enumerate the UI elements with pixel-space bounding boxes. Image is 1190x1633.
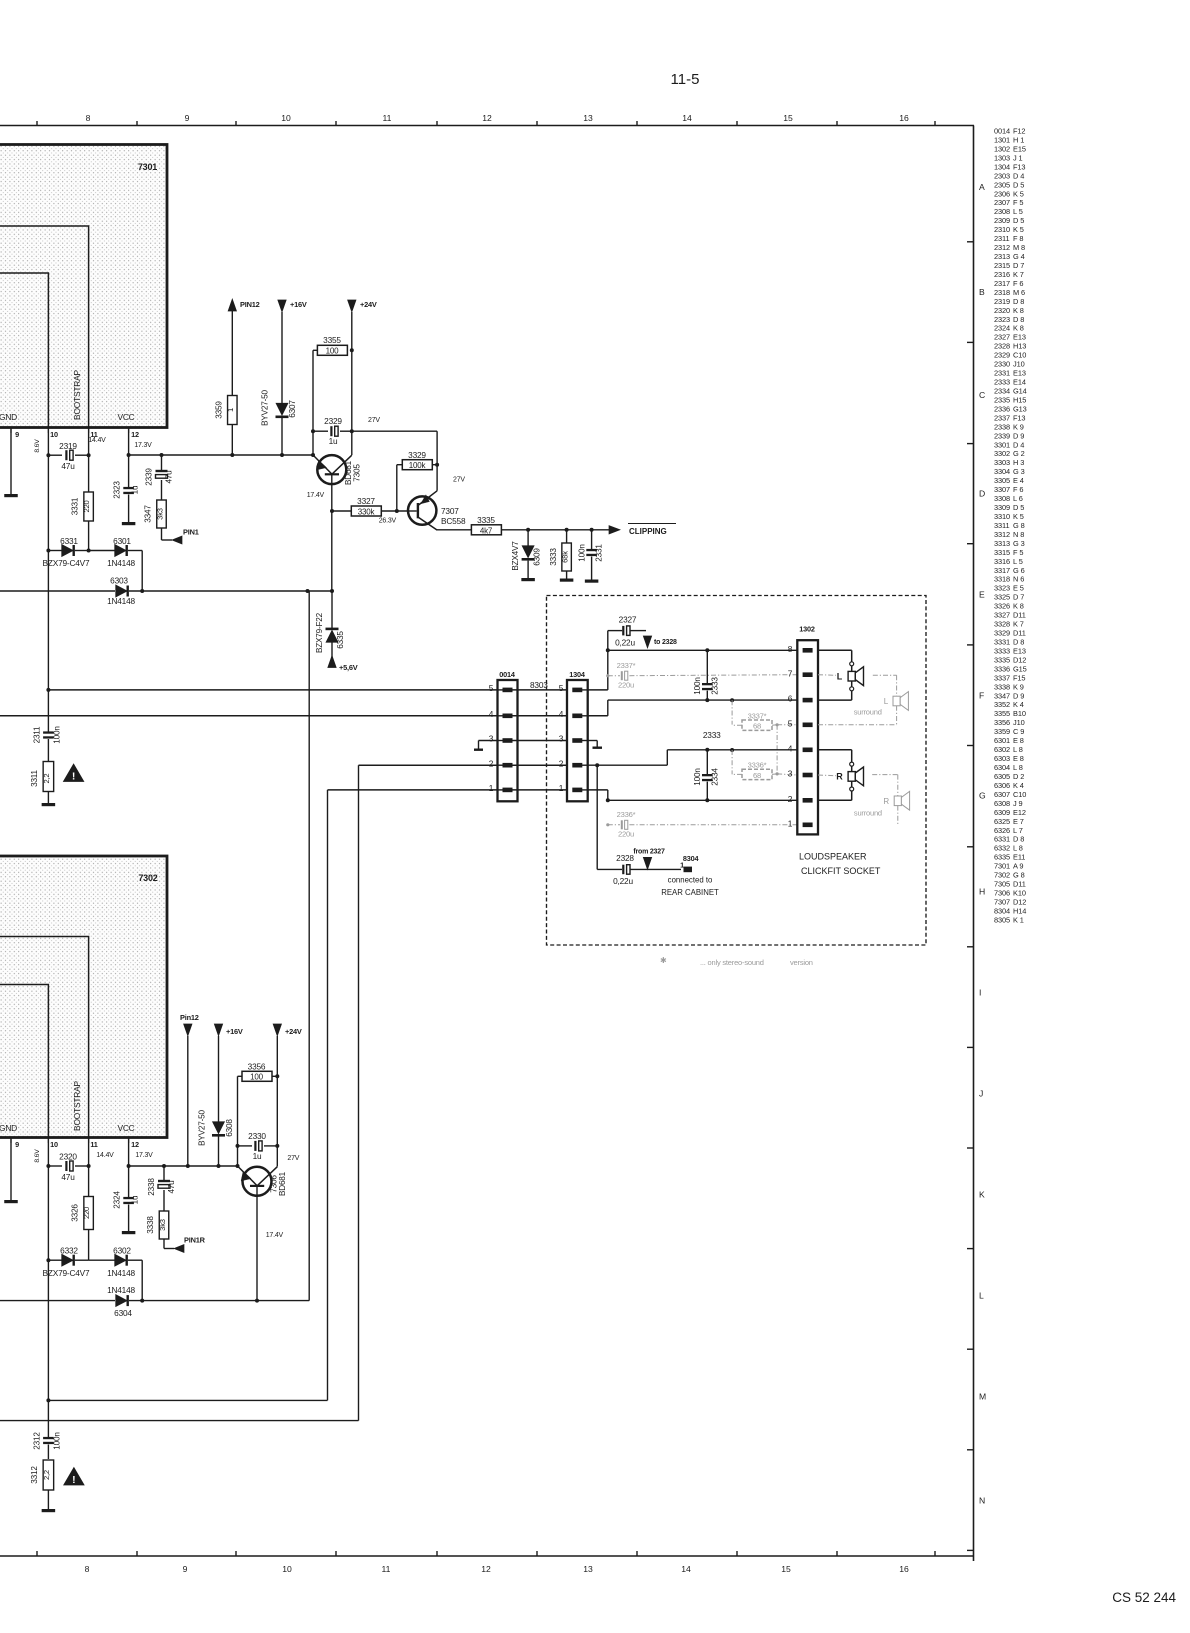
- svg-text:surround: surround: [854, 708, 882, 717]
- svg-text:6306: 6306: [994, 781, 1010, 790]
- capacitor 2311 100n: [47, 691, 49, 732]
- svg-text:D 2: D 2: [1013, 772, 1024, 781]
- svg-text:L 5: L 5: [1013, 557, 1023, 566]
- svg-text:VCC: VCC: [117, 1123, 134, 1133]
- svg-text:A 9: A 9: [1013, 862, 1023, 871]
- IC U7301 amplifier block outline: [0, 145, 167, 428]
- svg-text:8304: 8304: [994, 906, 1010, 915]
- svg-text:17.4V: 17.4V: [307, 492, 325, 499]
- svg-text:6335: 6335: [336, 631, 345, 649]
- svg-text:connected to: connected to: [668, 876, 713, 885]
- wire PIN12 vertical: [231, 311, 233, 396]
- svg-text:4: 4: [788, 743, 793, 753]
- svg-text:2336*: 2336*: [617, 810, 636, 819]
- svg-text:6307: 6307: [288, 400, 297, 418]
- svg-text:6303: 6303: [994, 754, 1010, 763]
- svg-text:100n: 100n: [577, 544, 586, 562]
- connector 0014 body: [498, 680, 518, 801]
- svg-text:E: E: [979, 590, 985, 600]
- capacitor 2323 1u: [123, 487, 134, 489]
- svg-text:17.3V: 17.3V: [134, 442, 152, 449]
- svg-text:R: R: [836, 772, 843, 782]
- svg-text:2: 2: [489, 758, 494, 768]
- svg-text:3326: 3326: [994, 602, 1010, 611]
- svg-text:version: version: [790, 958, 813, 967]
- svg-text:1N4148: 1N4148: [107, 1285, 135, 1295]
- svg-text:3329: 3329: [994, 629, 1010, 638]
- svg-text:C 9: C 9: [1013, 727, 1024, 736]
- svg-text:F 6: F 6: [1013, 485, 1023, 494]
- svg-text:15: 15: [781, 1564, 791, 1574]
- wire 3337 to 3336 grey vertical: [776, 725, 778, 774]
- svg-text:D12: D12: [1013, 898, 1026, 907]
- svg-text:3331: 3331: [71, 497, 80, 515]
- svg-text:1304: 1304: [569, 670, 586, 679]
- svg-text:J10: J10: [1013, 360, 1025, 369]
- wire pin12 vertical upper: [128, 428, 130, 488]
- svg-text:6301: 6301: [113, 536, 131, 546]
- svg-text:5: 5: [489, 683, 494, 693]
- svg-text:L: L: [837, 672, 843, 682]
- svg-text:27V: 27V: [368, 417, 380, 424]
- svg-text:12: 12: [131, 1140, 139, 1149]
- svg-text:6301: 6301: [994, 736, 1010, 745]
- svg-text:BZX4V7: BZX4V7: [511, 541, 520, 571]
- ground 2331: [585, 580, 599, 583]
- resistor 3355 100: [313, 349, 317, 351]
- svg-text:47u: 47u: [61, 461, 75, 471]
- svg-text:2338: 2338: [147, 1178, 156, 1196]
- node +24V arrow: [348, 300, 356, 312]
- ground 6309: [521, 578, 535, 581]
- svg-text:3k3: 3k3: [158, 1219, 167, 1231]
- svg-text:D11: D11: [1013, 880, 1026, 889]
- svg-text:6303: 6303: [110, 576, 128, 586]
- svg-text:surround: surround: [854, 809, 882, 818]
- svg-text:F 6: F 6: [1013, 279, 1023, 288]
- svg-text:2331: 2331: [994, 369, 1010, 378]
- svg-text:1303: 1303: [994, 153, 1010, 162]
- svg-text:6304: 6304: [114, 1308, 132, 1318]
- capacitor 2312 100n: [47, 1400, 49, 1437]
- svg-text:27V: 27V: [453, 477, 465, 484]
- svg-text:2324: 2324: [994, 324, 1010, 333]
- svg-text:16: 16: [899, 1564, 909, 1574]
- capacitor 2319 47u: [48, 454, 62, 456]
- svg-text:L 8: L 8: [1013, 844, 1023, 853]
- svg-text:K 4: K 4: [1013, 700, 1024, 709]
- svg-text:3355: 3355: [323, 335, 341, 345]
- svg-text:6332: 6332: [994, 844, 1010, 853]
- svg-text:K 8: K 8: [1013, 602, 1024, 611]
- svg-text:E 4: E 4: [1013, 476, 1024, 485]
- wire R speaker to pin2 row: [851, 781, 853, 787]
- svg-text:K 1: K 1: [1013, 915, 1024, 924]
- svg-text:2: 2: [788, 794, 793, 804]
- top border frame line: [0, 125, 974, 127]
- wire pin10 vertical upper: [47, 428, 49, 732]
- svg-text:H14: H14: [1013, 906, 1026, 915]
- svg-text:3305: 3305: [994, 476, 1010, 485]
- capacitor 2324 1u: [123, 1197, 134, 1199]
- wire bus to 0014 pin1: [328, 789, 498, 791]
- svg-text:12: 12: [482, 113, 492, 123]
- component index list: [994, 127, 1027, 925]
- capacitor 2339 47u: [161, 455, 163, 470]
- svg-text:9: 9: [185, 113, 190, 123]
- wire 6301 to 6303 row: [141, 551, 143, 592]
- ground 3333: [560, 579, 574, 582]
- capacitor 2337 grey 220u: [606, 674, 609, 677]
- svg-text:F: F: [979, 691, 984, 701]
- svg-text:3336: 3336: [994, 664, 1010, 673]
- svg-text:G 2: G 2: [1013, 449, 1025, 458]
- svg-text:2339: 2339: [994, 431, 1010, 440]
- wire 1302 pin4 to R speaker: [818, 749, 852, 751]
- svg-text:3337: 3337: [994, 673, 1010, 682]
- capacitor 2333 100n: [706, 650, 708, 683]
- resistor 3331 220: [84, 492, 94, 521]
- ground 3311: [42, 803, 56, 806]
- svg-text:G 4: G 4: [1013, 252, 1025, 261]
- wire main rail 17.3V upper: [129, 454, 313, 456]
- svg-text:3318: 3318: [994, 575, 1010, 584]
- node CLIPPING arrow: [609, 526, 620, 534]
- capacitor 2320 47u: [48, 1165, 62, 1167]
- svg-text:3325: 3325: [994, 593, 1010, 602]
- svg-text:3: 3: [788, 769, 793, 779]
- svg-text:K 5: K 5: [1013, 225, 1024, 234]
- svg-text:D 7: D 7: [1013, 593, 1024, 602]
- svg-text:3327: 3327: [357, 496, 375, 506]
- svg-text:BZX79-C4V7: BZX79-C4V7: [43, 1268, 90, 1278]
- svg-text:BZX79-F22: BZX79-F22: [315, 612, 324, 653]
- svg-text:2307: 2307: [994, 198, 1010, 207]
- wire 2339 to 3347: [161, 480, 163, 500]
- svg-text:8: 8: [85, 1564, 90, 1574]
- svg-text:1301: 1301: [994, 136, 1010, 145]
- svg-text:2317: 2317: [994, 279, 1010, 288]
- svg-text:D11: D11: [1013, 611, 1026, 620]
- svg-text:+24V: +24V: [285, 1027, 302, 1036]
- transistor Q7305 BD681: [312, 431, 314, 455]
- svg-text:13: 13: [583, 113, 593, 123]
- node +5.6V arrow: [328, 656, 336, 668]
- svg-text:2312: 2312: [33, 1432, 42, 1450]
- svg-text:7306: 7306: [994, 889, 1010, 898]
- wire ghost L bottom grey to pin5: [896, 706, 898, 725]
- node +16V arrow: [278, 300, 286, 312]
- wire 2323 to ground: [128, 495, 130, 523]
- R speaker terminal top: [850, 762, 854, 766]
- svg-text:3338: 3338: [994, 682, 1010, 691]
- svg-text:E 5: E 5: [1013, 584, 1024, 593]
- svg-text:2: 2: [559, 758, 564, 768]
- svg-text:3k3: 3k3: [155, 508, 164, 520]
- capacitor 2331 100n: [591, 530, 593, 549]
- svg-text:3329: 3329: [408, 450, 426, 460]
- svg-text:D 5: D 5: [1013, 216, 1024, 225]
- svg-text:2334: 2334: [994, 387, 1010, 396]
- node PIN1 arrow: [172, 536, 182, 544]
- svg-text:D 8: D 8: [1013, 835, 1024, 844]
- wire +24V vertical: [351, 312, 353, 455]
- svg-text:10: 10: [50, 430, 58, 439]
- svg-text:E11: E11: [1013, 853, 1025, 862]
- IC U7302 amplifier block outline: [0, 856, 167, 1138]
- svg-text:8305: 8305: [994, 915, 1010, 924]
- svg-text:E13: E13: [1013, 647, 1026, 656]
- svg-text:3337*: 3337*: [748, 712, 767, 721]
- capacitor 2338 47u: [163, 1166, 165, 1180]
- svg-text:L: L: [979, 1291, 984, 1301]
- svg-text:G 8: G 8: [1013, 521, 1025, 530]
- svg-text:K 9: K 9: [1013, 682, 1024, 691]
- wire bus right vertical from 6304: [308, 591, 310, 1301]
- svg-text:C: C: [979, 390, 985, 400]
- wire 3347 to PIN1: [161, 528, 163, 540]
- svg-text:11: 11: [383, 113, 392, 123]
- svg-text:M 6: M 6: [1013, 288, 1025, 297]
- wire stub 0014 pin3 shield: [479, 740, 498, 742]
- svg-text:3355: 3355: [994, 709, 1010, 718]
- svg-text:F13: F13: [1013, 162, 1025, 171]
- svg-text:2312: 2312: [994, 243, 1010, 252]
- loudspeaker clickfit dashed enclosure: [547, 596, 927, 946]
- warning triangle lower: [64, 1468, 84, 1485]
- svg-text:100: 100: [250, 1073, 263, 1082]
- svg-text:F15: F15: [1013, 673, 1025, 682]
- svg-text:6308: 6308: [994, 799, 1010, 808]
- svg-text:12: 12: [481, 1564, 491, 1574]
- svg-text:10: 10: [282, 1564, 292, 1574]
- wire lower output junction row: [48, 1399, 327, 1401]
- diode 6303 1N4148: [115, 586, 129, 597]
- svg-text:2,2: 2,2: [42, 1470, 51, 1480]
- svg-text:2328: 2328: [994, 342, 1010, 351]
- ghost speaker L surround grey: [893, 692, 908, 711]
- svg-text:2320: 2320: [59, 1152, 77, 1162]
- svg-text:CLICKFIT SOCKET: CLICKFIT SOCKET: [801, 866, 881, 876]
- svg-text:3309: 3309: [994, 503, 1010, 512]
- svg-text:1304: 1304: [994, 162, 1010, 171]
- svg-text:3356: 3356: [994, 718, 1010, 727]
- loudspeaker L: [851, 666, 853, 671]
- svg-text:E14: E14: [1013, 378, 1026, 387]
- svg-text:E 7: E 7: [1013, 817, 1024, 826]
- svg-text:6302: 6302: [113, 1246, 131, 1256]
- svg-text:2336: 2336: [994, 404, 1010, 413]
- svg-text:to 2328: to 2328: [654, 639, 677, 646]
- wire 3355 left to rail: [312, 350, 314, 431]
- svg-text:15: 15: [783, 113, 793, 123]
- bottom border frame line: [0, 1555, 974, 1557]
- resistor 3329 100k: [396, 465, 398, 511]
- wire emitter 7306 down: [256, 1186, 258, 1301]
- svg-text:G13: G13: [1013, 404, 1027, 413]
- svg-text:8: 8: [788, 644, 793, 654]
- svg-text:L 7: L 7: [1013, 826, 1023, 835]
- capacitor 2330 1u: [238, 1145, 253, 1147]
- svg-text:2310: 2310: [994, 225, 1010, 234]
- wire off-page to 0014 pin4: [0, 715, 498, 717]
- svg-text:3327: 3327: [994, 611, 1010, 620]
- svg-text:2320: 2320: [994, 306, 1010, 315]
- svg-text:E13: E13: [1013, 369, 1026, 378]
- svg-text:K 7: K 7: [1013, 270, 1024, 279]
- svg-text:2324: 2324: [113, 1191, 122, 1209]
- svg-text:10: 10: [281, 113, 291, 123]
- resistor 3356 100: [238, 1075, 243, 1077]
- svg-text:7301: 7301: [994, 862, 1010, 871]
- svg-text:G14: G14: [1013, 387, 1027, 396]
- wire output row 6304: [0, 1300, 309, 1302]
- wire output row 6303: [0, 590, 332, 592]
- svg-text:3352: 3352: [994, 700, 1010, 709]
- resistor 3347 3k3: [157, 500, 167, 528]
- svg-text:CLIPPING: CLIPPING: [629, 527, 667, 536]
- svg-text:REAR CABINET: REAR CABINET: [661, 888, 719, 897]
- svg-text:from 2327: from 2327: [633, 849, 665, 856]
- wire 1302 pin7 dotted to L: [818, 674, 836, 677]
- wire pin9 to ground lower: [10, 1138, 12, 1201]
- wire 6302 to 6304 row: [141, 1260, 143, 1300]
- svg-text:8: 8: [86, 113, 91, 123]
- svg-text:L 6: L 6: [1013, 494, 1023, 503]
- ground lower pin9: [4, 1200, 18, 1203]
- wire 1302 pin3 dotted to R: [818, 774, 836, 777]
- svg-text:F 8: F 8: [1013, 234, 1023, 243]
- svg-text:1: 1: [680, 861, 684, 870]
- wire 1304 pin1 riser to pin2 row: [588, 789, 608, 791]
- svg-text:J 1: J 1: [1013, 153, 1023, 162]
- IC 7301 inner block 2: [0, 273, 48, 428]
- svg-text:3331: 3331: [994, 638, 1010, 647]
- svg-text:2306: 2306: [994, 189, 1010, 198]
- node to 2328 arrow: [643, 636, 651, 648]
- wire bus vertical to connector pin2 row: [358, 765, 360, 1420]
- svg-text:BD681: BD681: [278, 1171, 287, 1196]
- R speaker terminal bottom: [850, 787, 854, 791]
- svg-text:3310: 3310: [994, 512, 1010, 521]
- wire main rail 17.3V lower: [129, 1165, 238, 1167]
- svg-text:330k: 330k: [358, 508, 376, 517]
- svg-text:47u: 47u: [61, 1172, 75, 1182]
- diode 6331 BZX79-C4V7: [48, 550, 62, 552]
- wire +16V vertical lower: [218, 1036, 220, 1122]
- svg-text:10: 10: [50, 1140, 58, 1149]
- svg-text:5: 5: [559, 683, 564, 693]
- wire pin9 to ground upper: [10, 428, 12, 495]
- svg-text:1: 1: [559, 783, 564, 793]
- svg-text:2331: 2331: [595, 544, 604, 562]
- svg-text:2333: 2333: [994, 378, 1010, 387]
- wire Pin12 vertical lower: [187, 1036, 189, 1166]
- node PIN12 arrow up: [228, 299, 236, 311]
- svg-text:9: 9: [15, 430, 19, 439]
- svg-text:0,22u: 0,22u: [613, 876, 633, 886]
- wire bus vertical to connector pin1 row: [327, 790, 329, 1401]
- capacitor 2334 100n: [706, 750, 708, 774]
- svg-text:220u: 220u: [618, 830, 634, 839]
- svg-text:1N4148: 1N4148: [107, 596, 135, 606]
- svg-text:F 5: F 5: [1013, 198, 1023, 207]
- svg-text:6302: 6302: [994, 745, 1010, 754]
- svg-text:3313: 3313: [994, 539, 1010, 548]
- svg-text:6309: 6309: [533, 548, 542, 566]
- svg-text:7301: 7301: [138, 162, 157, 172]
- svg-text:D 8: D 8: [1013, 297, 1024, 306]
- svg-text:BOOTSTRAP: BOOTSTRAP: [72, 1080, 82, 1130]
- svg-text:6307: 6307: [994, 790, 1010, 799]
- svg-text:6308: 6308: [225, 1119, 234, 1137]
- svg-text:... only stereo-sound: ... only stereo-sound: [700, 958, 764, 967]
- svg-text:G 8: G 8: [1013, 871, 1025, 880]
- svg-text:100n: 100n: [53, 726, 62, 744]
- svg-text:6304: 6304: [994, 763, 1010, 772]
- svg-text:2308: 2308: [994, 207, 1010, 216]
- svg-text:2333: 2333: [711, 677, 720, 695]
- svg-text:7302: 7302: [994, 871, 1010, 880]
- svg-text:PIN1: PIN1: [183, 528, 199, 537]
- svg-text:68: 68: [753, 722, 761, 731]
- svg-text:3304: 3304: [994, 467, 1010, 476]
- svg-text:D12: D12: [1013, 655, 1026, 664]
- svg-text:3326: 3326: [71, 1204, 80, 1222]
- svg-text:GND: GND: [0, 412, 17, 422]
- svg-text:4: 4: [559, 709, 564, 719]
- wire +16V vertical: [281, 312, 283, 404]
- svg-text:2318: 2318: [994, 288, 1010, 297]
- svg-text:E 8: E 8: [1013, 736, 1024, 745]
- svg-text:2329: 2329: [994, 351, 1010, 360]
- svg-text:6305: 6305: [994, 772, 1010, 781]
- connector 1302 pins 8-1: [803, 648, 813, 653]
- svg-text:M: M: [979, 1392, 986, 1402]
- svg-text:LOUDSPEAKER: LOUDSPEAKER: [799, 852, 867, 862]
- svg-text:E15: E15: [1013, 144, 1026, 153]
- svg-text:J: J: [979, 1089, 983, 1099]
- svg-text:1302: 1302: [994, 144, 1010, 153]
- svg-text:E12: E12: [1013, 808, 1026, 817]
- svg-text:1u: 1u: [329, 436, 338, 446]
- capacitor 2329 1u: [313, 430, 328, 432]
- svg-text:BYV27-50: BYV27-50: [261, 389, 270, 425]
- svg-text:1u: 1u: [131, 485, 140, 494]
- node from 2327 arrow: [643, 857, 651, 869]
- svg-text:2330: 2330: [248, 1131, 266, 1141]
- transistor Q7307 BC558: [408, 496, 436, 524]
- resistor 3312 2.2: [43, 1460, 54, 1490]
- diode 6301 1N4148: [89, 550, 115, 552]
- L speaker terminal top: [850, 662, 854, 666]
- resistor 3327 330k: [332, 510, 352, 512]
- svg-text:K 8: K 8: [1013, 306, 1024, 315]
- svg-text:2,2: 2,2: [42, 774, 51, 784]
- wire L speaker to pin6 row: [851, 681, 853, 687]
- svg-text:H15: H15: [1013, 395, 1026, 404]
- svg-text:100n: 100n: [693, 677, 702, 695]
- svg-text:11: 11: [382, 1564, 391, 1574]
- ground upper pin9: [4, 494, 18, 497]
- svg-text:100n: 100n: [53, 1432, 62, 1450]
- svg-text:H13: H13: [1013, 342, 1026, 351]
- svg-text:3359: 3359: [214, 401, 223, 419]
- svg-text:H 3: H 3: [1013, 458, 1024, 467]
- wire 1304 pin2 drop to 2328: [596, 765, 598, 869]
- svg-text:7305: 7305: [353, 464, 362, 482]
- svg-text:PIN1R: PIN1R: [184, 1236, 206, 1245]
